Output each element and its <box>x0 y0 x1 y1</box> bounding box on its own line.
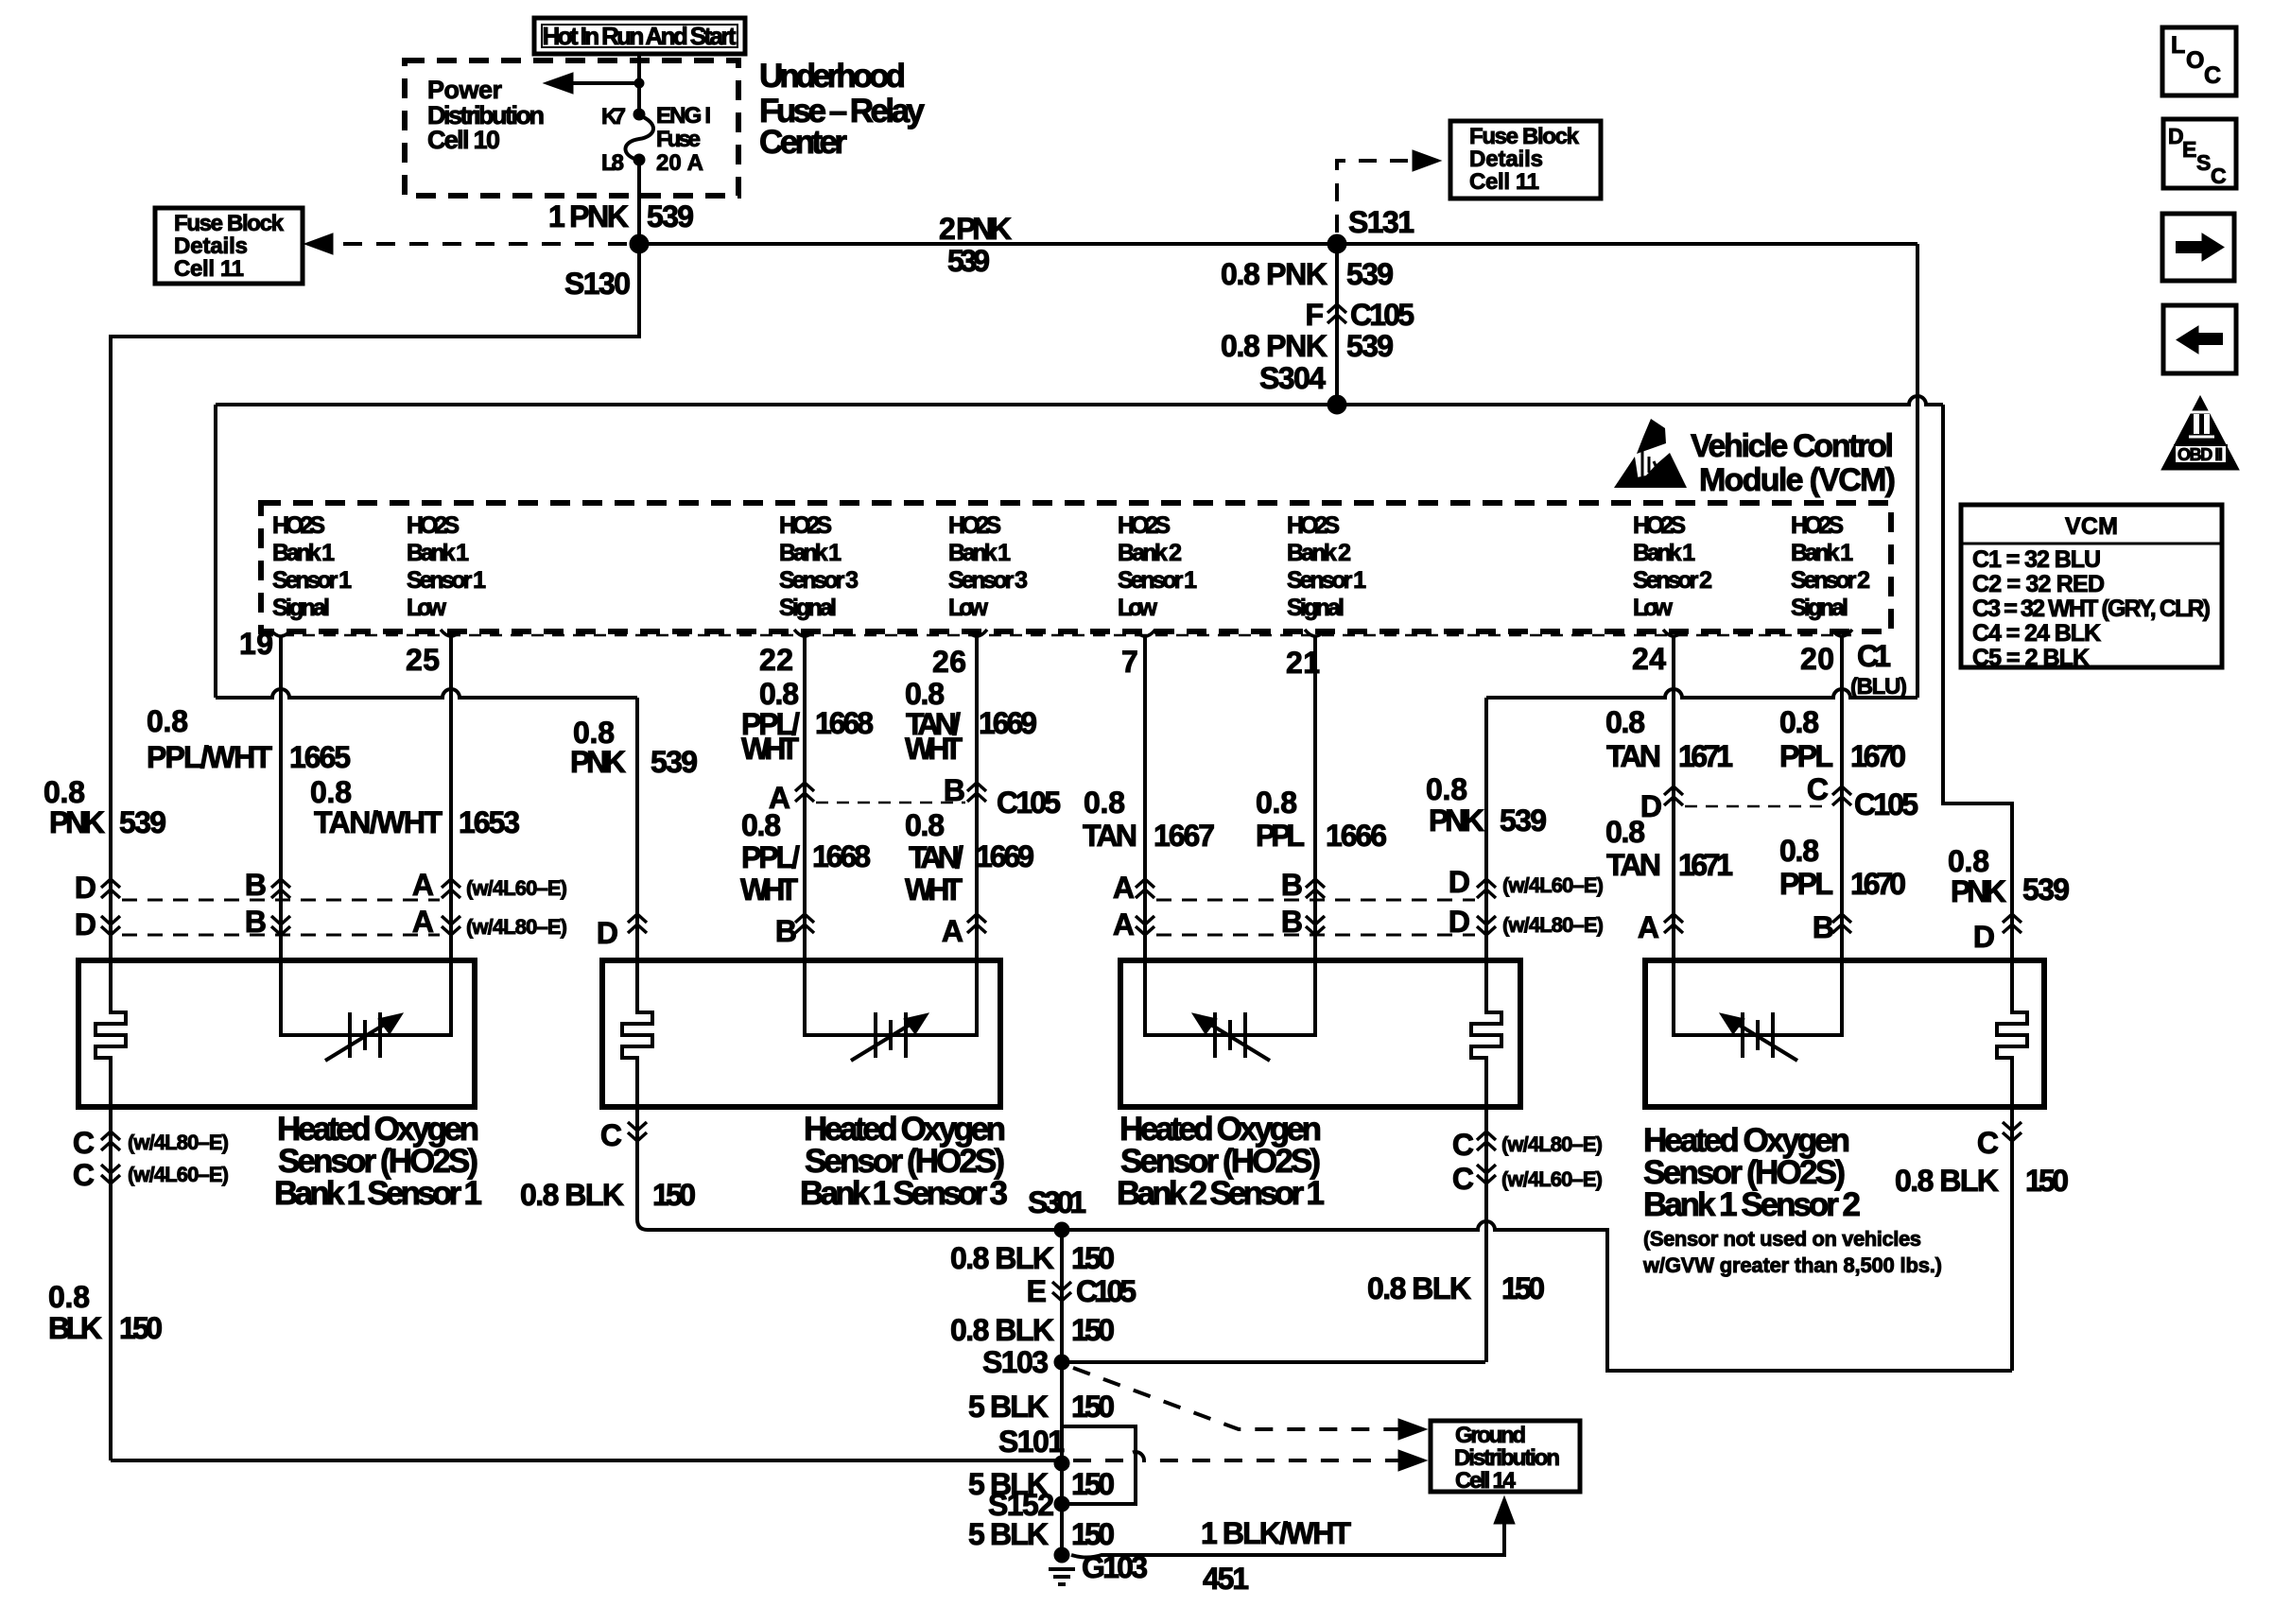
svg-text:Fuse: Fuse <box>656 127 701 152</box>
svg-text:PPL: PPL <box>1256 819 1305 853</box>
ESD symbol <box>1614 419 1687 488</box>
svg-text:20 A: 20 A <box>656 150 703 176</box>
svg-text:C: C <box>2211 164 2227 188</box>
label: 0.8 PNK 539 (B1S3 heater feed) <box>570 716 698 779</box>
svg-text:0.8 BLK: 0.8 BLK <box>950 1313 1054 1347</box>
svg-text:1668: 1668 <box>815 706 874 740</box>
svg-text:PNK: PNK <box>49 805 105 839</box>
wire: pin 24 to HO2S B1S2 <box>1672 637 1675 960</box>
svg-text:HO2S: HO2S <box>1633 512 1686 539</box>
svg-text:Sensor 1: Sensor 1 <box>1287 567 1366 594</box>
svg-text:150: 150 <box>1071 1467 1115 1501</box>
svg-text:0.8: 0.8 <box>1948 844 1989 878</box>
svg-text:0.8 BLK: 0.8 BLK <box>1367 1271 1471 1305</box>
label: 1 BLK/WHT 451 <box>1201 1516 1351 1596</box>
connector terminals (B1S2): A B D <box>1638 910 2021 954</box>
component: Heated Oxygen Sensor (HO2S) Bank 2 Sensor 1 <box>1120 960 1520 1107</box>
svg-text:C1 = 32 BLU: C1 = 32 BLU <box>1972 546 2101 573</box>
component: Heated Oxygen Sensor (HO2S) Bank 1 Sensor 1 <box>78 960 475 1107</box>
svg-text:Signal: Signal <box>1287 595 1345 621</box>
label: Heated Oxygen Sensor (HO2S) Bank 2 Sensor 1 <box>1117 1111 1325 1212</box>
svg-text:HO2S: HO2S <box>1287 512 1340 539</box>
svg-text:TAN/: TAN/ <box>909 840 963 874</box>
svg-text:0.8: 0.8 <box>1256 786 1297 820</box>
svg-text:PPL/WHT: PPL/WHT <box>147 740 272 774</box>
svg-text:150: 150 <box>1501 1271 1545 1305</box>
svg-text:BLK: BLK <box>48 1311 102 1345</box>
icon: left arrow box <box>2163 305 2236 373</box>
svg-text:F: F <box>1305 298 1324 332</box>
svg-text:C: C <box>1452 1128 1474 1162</box>
svg-text:S304: S304 <box>1259 361 1326 395</box>
svg-text:Cell 11: Cell 11 <box>1469 169 1539 195</box>
label: Power Distribution Cell 10 <box>427 76 545 154</box>
label: 0.8 PPL 1666 <box>1256 786 1387 853</box>
node S101 <box>998 1425 1069 1471</box>
svg-text:Bank 1 Sensor 2: Bank 1 Sensor 2 <box>1643 1186 1861 1223</box>
wire: pin 26 to HO2S B1S3 <box>975 637 979 960</box>
wire: S130 to left PNK feed of HO2S B1S1 pin D <box>111 244 639 960</box>
wire: pin 7 to HO2S B2S1 <box>1143 637 1147 960</box>
wire: dashed from S131 up to Fuse Block Details (right) with arrow <box>1337 161 1415 233</box>
connector C w/4L80-E / w/4L60-E (B1S1) <box>73 1107 229 1460</box>
svg-text:B: B <box>245 905 267 939</box>
label: 0.8 BLK 150 <box>950 1313 1115 1347</box>
svg-text:7: 7 <box>1121 645 1138 679</box>
svg-text:WHT: WHT <box>905 732 963 766</box>
svg-text:Signal: Signal <box>272 595 330 621</box>
svg-text:(Sensor not used on vehicles: (Sensor not used on vehicles <box>1643 1227 1921 1251</box>
label: 0.8 TAN 1671 (below C105) <box>1605 815 1733 882</box>
svg-text:B: B <box>1281 905 1303 939</box>
svg-text:1670: 1670 <box>1850 867 1906 901</box>
connector row w/4L80-E (B1S1): D B A <box>75 905 567 942</box>
svg-text:150: 150 <box>1071 1241 1115 1275</box>
wire: pin 20 to HO2S B1S2 <box>1840 637 1844 960</box>
svg-text:0.8 PNK: 0.8 PNK <box>1221 329 1327 363</box>
wire: dashed S101 to Ground Distribution with arrow, hop over jog <box>1073 1452 1401 1460</box>
svg-text:HO2S: HO2S <box>1118 512 1171 539</box>
svg-text:B: B <box>775 914 797 948</box>
label: Underhood Fuse-Relay Center <box>759 58 926 161</box>
svg-text:A: A <box>412 905 434 939</box>
svg-text:150: 150 <box>1071 1313 1115 1347</box>
svg-text:Sensor 2: Sensor 2 <box>1791 567 1870 594</box>
svg-text:S: S <box>2196 150 2211 175</box>
ground G103 <box>1049 1547 1148 1584</box>
label: 0.8 TAN 1667 <box>1083 786 1215 853</box>
svg-text:Bank 1: Bank 1 <box>779 540 842 566</box>
svg-text:1666: 1666 <box>1326 819 1387 853</box>
svg-text:C: C <box>73 1126 95 1160</box>
svg-text:539: 539 <box>647 199 694 233</box>
svg-text:C3 = 32 WHT (GRY, CLR): C3 = 32 WHT (GRY, CLR) <box>1972 596 2211 622</box>
svg-text:TAN/WHT: TAN/WHT <box>314 805 442 839</box>
svg-text:ENG I: ENG I <box>656 103 711 129</box>
svg-text:PPL: PPL <box>1779 867 1833 901</box>
svg-text:22: 22 <box>759 643 793 677</box>
svg-text:(w/4L80–E): (w/4L80–E) <box>1501 1132 1603 1156</box>
label: 0.8 TAN/WHT 1669 (above C105) <box>905 677 1037 766</box>
svg-text:0.8: 0.8 <box>310 775 352 809</box>
wire: heater feed rail (right segment) with hops over pins 24,20 <box>1486 689 1917 698</box>
svg-text:1671: 1671 <box>1678 848 1733 882</box>
svg-text:Bank 2: Bank 2 <box>1118 540 1182 566</box>
svg-text:Low: Low <box>948 595 989 621</box>
node S103 <box>982 1345 1069 1379</box>
connector C (B1S3) <box>600 1107 647 1219</box>
svg-text:A: A <box>942 914 963 948</box>
label: C1 (BLU) <box>1850 639 1907 700</box>
box: Fuse Block Details Cell 11 (left) <box>155 208 303 284</box>
wire: heater feed rail (left segment) with hops over pins 19,25 <box>216 689 637 698</box>
label: 0.8 TAN/WHT 1669 (below C105) <box>905 808 1034 907</box>
svg-text:VCM: VCM <box>2065 513 2118 540</box>
label: 0.8 PNK 539 (above C105 F) <box>1221 257 1394 291</box>
label: 5 BLK 150 <box>968 1390 1115 1424</box>
svg-text:D: D <box>1449 905 1470 939</box>
svg-text:0.8: 0.8 <box>1779 705 1819 739</box>
svg-text:1668: 1668 <box>812 839 871 873</box>
svg-text:Bank 1 Sensor 1: Bank 1 Sensor 1 <box>274 1175 482 1212</box>
box: Fuse Block Details Cell 11 (right) <box>1450 121 1601 199</box>
svg-text:(w/4L80–E): (w/4L80–E) <box>466 915 567 939</box>
svg-text:Cell 11: Cell 11 <box>174 256 244 282</box>
svg-text:C: C <box>1452 1162 1474 1196</box>
svg-text:A: A <box>1113 907 1135 942</box>
svg-text:0.8: 0.8 <box>1779 834 1819 868</box>
svg-text:539: 539 <box>1500 803 1547 838</box>
svg-text:0.8: 0.8 <box>48 1280 90 1314</box>
svg-text:S131: S131 <box>1348 205 1414 239</box>
svg-text:w/GVW greater than 8,500 lbs.): w/GVW greater than 8,500 lbs.) <box>1642 1253 1942 1277</box>
connector row w/4L60-E (B1S1): D B A <box>75 868 567 905</box>
label: Heated Oxygen Sensor (HO2S) Bank 1 Sensor 1 <box>274 1111 482 1212</box>
svg-text:(w/4L60–E): (w/4L60–E) <box>1501 1167 1603 1191</box>
wire: pin 21 to HO2S B2S1 <box>1313 637 1317 960</box>
wire: pin 22 to HO2S B1S3 <box>803 637 807 960</box>
svg-text:S301: S301 <box>1028 1185 1086 1219</box>
svg-text:C105: C105 <box>1076 1274 1136 1308</box>
wire: PNK 539 drop to HO2S B1S3 pin D <box>635 698 639 960</box>
svg-text:(w/4L60–E): (w/4L60–E) <box>466 876 567 900</box>
box: Underhood Fuse-Relay Center (dashed) <box>405 60 738 196</box>
svg-text:PPL/: PPL/ <box>741 840 800 874</box>
wire: left elbow down to heater feed rail <box>214 405 217 698</box>
node S301 <box>1028 1185 1086 1237</box>
svg-text:L: L <box>2171 32 2185 59</box>
svg-text:539: 539 <box>947 244 990 278</box>
node S130 <box>564 234 649 301</box>
VCM connector C1 face (thin dashed) <box>261 634 1851 637</box>
svg-text:HO2S: HO2S <box>1791 512 1844 539</box>
label: 5 BLK 150 <box>968 1517 1115 1551</box>
connector C105 A/B row <box>769 773 1061 820</box>
svg-text:0.8: 0.8 <box>43 775 85 809</box>
svg-text:0.8 BLK: 0.8 BLK <box>950 1241 1054 1275</box>
svg-text:0.8 BLK: 0.8 BLK <box>1895 1164 1999 1198</box>
svg-text:D: D <box>1449 865 1470 899</box>
svg-text:A: A <box>1638 910 1659 944</box>
svg-text:TAN: TAN <box>1083 819 1137 853</box>
svg-text:PNK: PNK <box>1429 803 1484 838</box>
svg-text:0.8: 0.8 <box>1605 705 1645 739</box>
svg-text:(BLU): (BLU) <box>1850 674 1907 700</box>
svg-text:1 PNK: 1 PNK <box>548 199 629 233</box>
connector C105 D/C row <box>1640 772 1918 823</box>
svg-text:Underhood: Underhood <box>759 58 906 95</box>
svg-text:Bank 2: Bank 2 <box>1287 540 1351 566</box>
svg-text:A: A <box>1113 871 1135 905</box>
svg-text:0.8: 0.8 <box>741 808 781 842</box>
svg-text:Bank 2 Sensor 1: Bank 2 Sensor 1 <box>1117 1175 1325 1212</box>
svg-text:HO2S: HO2S <box>948 512 1001 539</box>
svg-text:5 BLK: 5 BLK <box>968 1390 1049 1424</box>
svg-text:Fuse Block: Fuse Block <box>174 211 285 236</box>
label: 0.8 BLK 150 (B1S3 ground) <box>520 1178 696 1212</box>
VCM pin function labels <box>272 512 352 621</box>
svg-text:PPL: PPL <box>1779 739 1833 773</box>
svg-text:Sensor 3: Sensor 3 <box>779 567 859 594</box>
svg-text:150: 150 <box>652 1178 696 1212</box>
svg-text:Sensor 1: Sensor 1 <box>407 567 486 594</box>
svg-text:C: C <box>600 1118 622 1152</box>
svg-text:0.8: 0.8 <box>905 808 945 842</box>
box: VCM dashed outline <box>261 503 1891 631</box>
svg-text:1669: 1669 <box>979 706 1037 740</box>
svg-text:0.8: 0.8 <box>1426 772 1467 806</box>
svg-text:C105: C105 <box>1350 298 1414 332</box>
svg-text:Low: Low <box>407 595 447 621</box>
icon: right arrow box <box>2162 214 2234 281</box>
svg-text:S101: S101 <box>998 1425 1065 1459</box>
wire: ground chain S301-G103 <box>1060 1230 1064 1555</box>
connector terminals (B1S3): D B A <box>597 914 986 950</box>
svg-text:WHT: WHT <box>740 872 798 907</box>
svg-text:HO2S: HO2S <box>272 512 325 539</box>
label: 0.8 BLK 150 (B2S1 ground) <box>1367 1271 1545 1305</box>
label: 5 BLK 150 <box>968 1467 1115 1501</box>
svg-text:0.8: 0.8 <box>147 704 188 738</box>
wire: PNK 539 drop to HO2S B2S1 pin D <box>1484 698 1488 960</box>
wire: S103 rail to B2S1 C wire <box>1062 1360 1485 1364</box>
svg-text:451: 451 <box>1203 1562 1249 1596</box>
svg-text:Sensor 3: Sensor 3 <box>948 567 1028 594</box>
svg-text:Low: Low <box>1633 595 1674 621</box>
label: 0.8 PPL 1670 (above C105) <box>1779 705 1906 773</box>
wire: pin 25 to HO2S B1S1 <box>449 637 453 960</box>
svg-text:0.8: 0.8 <box>905 677 945 711</box>
svg-text:150: 150 <box>1071 1390 1115 1424</box>
svg-text:24: 24 <box>1632 642 1666 676</box>
svg-text:539: 539 <box>1346 257 1394 291</box>
wire: dashed from S130 to Fuse Block Details (left) with arrow <box>325 242 627 246</box>
wire: S301 ground rail with hop at B2S1 wire, to B1S2 C wire <box>637 1219 2012 1371</box>
component: Heated Oxygen Sensor (HO2S) Bank 1 Sensor 3 <box>602 960 1000 1107</box>
svg-text:Hot In Run And Start: Hot In Run And Start <box>543 22 737 50</box>
wire: 2 PNK 539 rail from S130 to right corner <box>639 242 1917 246</box>
svg-text:Distribution: Distribution <box>1454 1445 1560 1471</box>
wire: dashed S103 to Ground Distribution with arrow <box>1073 1368 1401 1429</box>
svg-text:Low: Low <box>1118 595 1158 621</box>
label: 1 PNK 539 <box>548 199 694 233</box>
wire: S304 right elbow to HO2S B1S2 pin D <box>1943 405 2012 960</box>
svg-text:Vehicle Control: Vehicle Control <box>1691 428 1894 464</box>
svg-text:S130: S130 <box>564 267 631 301</box>
box: Hot In Run And Start <box>534 18 745 54</box>
svg-text:Details: Details <box>1469 147 1543 172</box>
svg-text:A: A <box>412 868 434 902</box>
svg-text:D: D <box>75 871 96 905</box>
svg-text:Signal: Signal <box>1791 595 1848 621</box>
svg-text:C: C <box>1807 772 1829 806</box>
svg-text:C105: C105 <box>997 786 1061 820</box>
svg-text:(w/4L60–E): (w/4L60–E) <box>128 1163 229 1186</box>
svg-text:TAN: TAN <box>1606 739 1661 773</box>
svg-text:WHT: WHT <box>905 872 963 907</box>
svg-text:Bank 1: Bank 1 <box>1791 540 1853 566</box>
svg-text:1669: 1669 <box>976 839 1034 873</box>
svg-text:D: D <box>597 916 618 950</box>
pin numbers <box>239 627 1834 680</box>
connector row w/4L80-E (B2S1): A B D <box>1113 905 1604 942</box>
wire: jog S103 branch to S152 <box>1062 1426 1136 1504</box>
svg-text:OBD II: OBD II <box>2178 445 2223 464</box>
svg-text:L8: L8 <box>601 150 624 176</box>
svg-text:2 PNK: 2 PNK <box>939 212 1012 246</box>
svg-text:HO2S: HO2S <box>407 512 460 539</box>
VCM legend box <box>1961 505 2222 671</box>
svg-text:B: B <box>944 773 965 807</box>
label: Heated Oxygen Sensor (HO2S) Bank 1 Sensor 2 <box>1642 1122 1942 1277</box>
VCM pin terminals <box>270 630 1852 636</box>
node S131 <box>1327 205 1414 253</box>
svg-text:E: E <box>2182 137 2196 162</box>
label: 0.8 PPL/WHT 1668 (above C105) <box>741 677 874 766</box>
svg-text:Sensor 2: Sensor 2 <box>1633 567 1712 594</box>
svg-text:TAN: TAN <box>1606 848 1661 882</box>
node S152 <box>988 1488 1069 1522</box>
svg-text:PNK: PNK <box>570 745 626 779</box>
label: 0.8 BLK 150 <box>950 1241 1115 1275</box>
svg-text:26: 26 <box>932 645 966 679</box>
svg-text:PNK: PNK <box>1951 874 2006 908</box>
svg-text:539: 539 <box>1346 329 1394 363</box>
icon: DESC box <box>2163 119 2236 188</box>
svg-text:1670: 1670 <box>1850 739 1906 773</box>
svg-text:Bank 1: Bank 1 <box>1633 540 1695 566</box>
svg-text:Module (VCM): Module (VCM) <box>1699 462 1896 498</box>
svg-text:5 BLK: 5 BLK <box>968 1517 1049 1551</box>
wire: from Hot In Run And Start down to K7 <box>637 54 641 113</box>
svg-text:1667: 1667 <box>1154 819 1215 853</box>
wire: pin 19 to HO2S B1S1 <box>279 637 283 960</box>
svg-text:Details: Details <box>174 233 248 259</box>
label: 0.8 PNK 539 (below C105 F) <box>1221 329 1394 363</box>
svg-text:Bank 1 Sensor 3: Bank 1 Sensor 3 <box>800 1175 1008 1212</box>
svg-text:D: D <box>75 907 96 942</box>
connector E C105 <box>1027 1274 1136 1308</box>
wire: S304 horizontal distribution line with hop over PNK drop <box>216 396 1943 405</box>
svg-text:1653: 1653 <box>459 805 520 839</box>
svg-text:Ground: Ground <box>1455 1423 1526 1448</box>
svg-text:539: 539 <box>119 805 166 839</box>
box: Ground Distribution Cell 14 <box>1431 1421 1580 1494</box>
svg-text:Cell 14: Cell 14 <box>1455 1468 1517 1494</box>
connector row w/4L60-E (B2S1): A B D <box>1113 865 1604 905</box>
svg-text:19: 19 <box>239 627 273 661</box>
label: 0.8 PPL/WHT 1668 (below C105) <box>740 808 871 907</box>
fuse ENG I 20 A <box>601 103 711 176</box>
label: 0.8 PPL 1670 (below C105) <box>1779 834 1906 901</box>
svg-text:C2 = 32 RED: C2 = 32 RED <box>1972 571 2105 597</box>
svg-text:1671: 1671 <box>1678 739 1733 773</box>
icon: OBD II triangle <box>2161 396 2239 470</box>
svg-text:B: B <box>1281 868 1303 902</box>
label: 0.8 PNK 539 (left feed) <box>43 775 166 839</box>
wire: S131 down to S304 <box>1335 244 1339 405</box>
svg-text:Center: Center <box>759 124 847 161</box>
svg-text:0.8 PNK: 0.8 PNK <box>1221 257 1327 291</box>
svg-text:C1: C1 <box>1857 639 1891 673</box>
svg-text:0.8 BLK: 0.8 BLK <box>520 1178 624 1212</box>
label: 0.8 TAN/WHT 1653 <box>310 775 520 839</box>
wire: 2 PNK drop at right, hops S304 line, to lower rail <box>1916 244 1919 698</box>
label: 2 PNK 539 <box>939 212 1012 278</box>
svg-text:C: C <box>2204 62 2221 89</box>
svg-text:Fuse Block: Fuse Block <box>1469 124 1580 149</box>
svg-text:Power: Power <box>427 76 502 104</box>
svg-text:WHT: WHT <box>741 732 799 766</box>
wire: arrow to Power Distribution <box>567 81 639 85</box>
svg-text:539: 539 <box>2022 872 2070 907</box>
svg-text:(w/4L60–E): (w/4L60–E) <box>1502 873 1604 897</box>
label: Vehicle Control Module (VCM) <box>1691 428 1896 498</box>
label: 0.8 BLK 150 (B1S2 ground) <box>1895 1164 2069 1198</box>
svg-text:HO2S: HO2S <box>779 512 832 539</box>
svg-text:Bank 1: Bank 1 <box>407 540 469 566</box>
svg-text:150: 150 <box>2025 1164 2069 1198</box>
component: Heated Oxygen Sensor (HO2S) Bank 1 Sensor 2 <box>1645 960 2044 1107</box>
wire: fuse output to S130 <box>637 160 641 244</box>
svg-text:E: E <box>1027 1274 1047 1308</box>
svg-text:C105: C105 <box>1854 787 1918 821</box>
label: Heated Oxygen Sensor (HO2S) Bank 1 Sensor 3 <box>800 1111 1008 1212</box>
svg-text:K7: K7 <box>601 104 626 130</box>
svg-text:1665: 1665 <box>289 740 351 774</box>
svg-text:20: 20 <box>1800 642 1834 676</box>
svg-text:B: B <box>245 868 267 902</box>
svg-text:(w/4L80–E): (w/4L80–E) <box>128 1131 229 1154</box>
label: 0.8 TAN 1671 (above C105) <box>1605 705 1733 773</box>
connector F C105 <box>1305 298 1414 332</box>
label: 0.8 PNK 539 (B1S2 heater feed) <box>1948 844 2070 908</box>
label: 0.8 PNK 539 (B2S1 heater feed) <box>1426 772 1547 838</box>
svg-text:0.8: 0.8 <box>1084 786 1125 820</box>
label: 0.8 PPL/WHT 1665 <box>147 704 351 774</box>
svg-text:0.8: 0.8 <box>1605 815 1645 849</box>
svg-text:C4 = 24 BLK: C4 = 24 BLK <box>1972 620 2101 647</box>
label: 0.8 BLK 150 (B1S1 ground) <box>48 1280 163 1345</box>
connector C (B1S2) <box>1977 1107 2021 1371</box>
svg-text:B: B <box>1813 910 1834 944</box>
wire: 1 BLK/WHT 451 from G103 to Ground Distribution <box>1071 1524 1504 1558</box>
wire: left ground rail from B1S1 to S101 <box>111 1459 1062 1462</box>
svg-text:150: 150 <box>1071 1517 1115 1551</box>
svg-text:Signal: Signal <box>779 595 837 621</box>
svg-text:C5 = 2 BLK: C5 = 2 BLK <box>1972 645 2090 671</box>
svg-text:Bank 1: Bank 1 <box>948 540 1011 566</box>
